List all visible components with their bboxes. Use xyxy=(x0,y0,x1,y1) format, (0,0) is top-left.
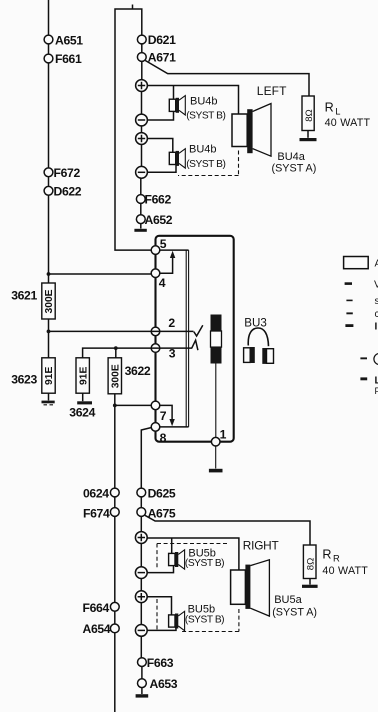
speaker RIGHT connector plate xyxy=(231,570,246,604)
svg-text:40 WATT: 40 WATT xyxy=(322,565,368,577)
node plus2 xyxy=(136,133,148,145)
svg-text:F661: F661 xyxy=(55,52,82,66)
svg-text:BU4b: BU4b xyxy=(189,144,217,156)
wire xyxy=(48,270,50,283)
legend circle fragment xyxy=(374,353,378,364)
node D624 xyxy=(110,488,119,497)
wire minusA to BU5b-1 xyxy=(147,566,173,573)
wire xyxy=(141,62,143,80)
svg-text:F672: F672 xyxy=(54,166,81,180)
node junction 3622 top xyxy=(114,346,118,350)
ground 3623 xyxy=(42,401,55,405)
wire tap BU4b-1 xyxy=(173,86,175,100)
svg-text:8Ω: 8Ω xyxy=(304,109,315,122)
node A671 xyxy=(137,53,146,62)
wire plus2 to BU4b-2 xyxy=(147,139,172,153)
svg-text:(SYST B): (SYST B) xyxy=(185,615,224,626)
headphone jack BU3 plug xyxy=(211,315,222,364)
wire xyxy=(140,203,142,214)
node A654 xyxy=(110,624,119,633)
wire 3622 down to D624 xyxy=(114,394,116,488)
svg-text:F664: F664 xyxy=(83,601,110,615)
svg-text:4: 4 xyxy=(159,276,166,290)
node minusA xyxy=(135,567,147,579)
wire xyxy=(140,178,142,194)
node A652 xyxy=(136,215,145,224)
svg-text:RIGHT: RIGHT xyxy=(243,538,279,552)
resistor RR xyxy=(303,545,316,579)
wire A675 to RR xyxy=(145,515,310,545)
wire plusA to speaker xyxy=(147,538,239,570)
wire top bracket xyxy=(115,9,151,250)
svg-text:F: F xyxy=(375,386,378,396)
wire plusB to BU5b-2 xyxy=(147,597,171,615)
svg-text:91E: 91E xyxy=(78,367,89,385)
svg-text:3622: 3622 xyxy=(125,364,151,378)
svg-text:L: L xyxy=(375,376,378,387)
wire minus1 to BU4b-1 xyxy=(147,111,173,120)
svg-text:RL: RL xyxy=(325,101,341,117)
svg-text:300E: 300E xyxy=(110,364,121,388)
wire inner rail left xyxy=(185,250,187,427)
node D625 xyxy=(137,488,146,497)
svg-text:A675: A675 xyxy=(148,507,176,521)
wire xyxy=(141,667,143,679)
node plus1 xyxy=(136,80,148,92)
svg-text:A671: A671 xyxy=(148,50,176,64)
node pin2 xyxy=(151,327,160,336)
ground RL xyxy=(300,138,317,141)
wire minusB to BU5b-2 xyxy=(147,627,176,630)
svg-text:3623: 3623 xyxy=(11,373,37,387)
svg-text:91E: 91E xyxy=(44,367,55,385)
svg-text:I: I xyxy=(375,322,378,333)
connector BU4b-1 xyxy=(169,96,185,115)
svg-text:3: 3 xyxy=(169,347,176,361)
wire pin1 to ground xyxy=(215,446,217,469)
connector BU4b-2 xyxy=(169,149,185,168)
svg-text:F663: F663 xyxy=(147,656,174,670)
wire xyxy=(141,144,143,166)
wire left bus top xyxy=(48,0,50,270)
svg-text:A654: A654 xyxy=(83,622,111,636)
resistor 3623 91E xyxy=(42,358,55,393)
svg-text:(SYST B): (SYST B) xyxy=(186,111,225,122)
node F672 xyxy=(44,168,53,177)
svg-text:D622: D622 xyxy=(54,185,82,199)
svg-text:8Ω: 8Ω xyxy=(306,558,317,571)
switch jack contact pin3 xyxy=(192,340,198,350)
svg-text:300E: 300E xyxy=(44,289,55,313)
node A675 xyxy=(137,508,146,517)
node F663 xyxy=(138,658,147,667)
svg-text:V: V xyxy=(374,280,378,291)
op-amp U1 amplifier block xyxy=(156,236,234,442)
resistor RL xyxy=(302,96,314,131)
wire xyxy=(141,44,143,53)
svg-text:8: 8 xyxy=(160,431,167,445)
wire xyxy=(141,91,143,114)
node pin7 xyxy=(151,401,160,410)
wire inner rail right xyxy=(188,250,190,427)
wire minus2 to BU4b-2 xyxy=(147,165,176,173)
wire tap BU5b-1 xyxy=(171,538,173,554)
svg-text:(SYST A): (SYST A) xyxy=(272,162,317,174)
ground RR xyxy=(302,585,318,588)
node F674 xyxy=(110,508,119,517)
node minusB xyxy=(135,625,147,637)
wire pin2 feed xyxy=(49,330,194,332)
wire dashed syst boundary right xyxy=(238,151,240,176)
wire plus1 to speaker xyxy=(147,86,238,115)
svg-text:F674: F674 xyxy=(83,507,110,521)
wire pin8 to D625 xyxy=(141,428,151,489)
node minus2 xyxy=(136,166,148,178)
node F661 xyxy=(44,54,53,63)
legend dashes xyxy=(345,282,368,380)
svg-text:BU4b: BU4b xyxy=(190,95,218,107)
svg-text:5: 5 xyxy=(160,237,167,251)
connector BU5a contacts xyxy=(245,565,250,609)
wire xyxy=(309,579,311,585)
svg-text:A651: A651 xyxy=(55,33,83,47)
wire xyxy=(140,516,142,531)
wire pin5 inner xyxy=(156,249,189,251)
wire xyxy=(307,131,309,138)
ground pin1 xyxy=(209,469,223,473)
wire xyxy=(140,636,142,657)
resistor 3624 91E xyxy=(76,358,89,393)
svg-text:(SYST B): (SYST B) xyxy=(185,558,224,569)
connector BU5b-1 xyxy=(169,550,185,569)
svg-text:D625: D625 xyxy=(148,487,176,501)
node plusA xyxy=(135,532,147,544)
node minus1 xyxy=(136,114,148,126)
svg-text:0624: 0624 xyxy=(83,487,109,501)
wire xyxy=(115,497,142,508)
wire pin3 feed xyxy=(83,348,192,358)
svg-text:1: 1 xyxy=(220,427,227,441)
speaker LEFT cone xyxy=(253,104,271,157)
wire dashed syst box bottom section xyxy=(157,544,239,632)
svg-text:A: A xyxy=(375,259,378,270)
legend symbol box xyxy=(344,257,369,269)
speaker RIGHT cone xyxy=(250,560,269,616)
svg-text:(SYST B): (SYST B) xyxy=(186,159,225,170)
wire xyxy=(141,688,143,694)
wire pin8 inner xyxy=(156,426,189,428)
node D621 xyxy=(137,35,146,44)
ground A652 xyxy=(134,229,146,232)
svg-text:3621: 3621 xyxy=(11,288,37,302)
svg-text:7: 7 xyxy=(160,409,167,423)
headphones BU3 icon xyxy=(244,328,274,364)
node pin4 xyxy=(151,269,160,278)
wire pin4 arrow up xyxy=(156,251,176,274)
svg-text:A653: A653 xyxy=(150,677,178,691)
svg-text:(SYST A): (SYST A) xyxy=(272,607,317,619)
connector BU4a contacts xyxy=(247,109,252,153)
wire xyxy=(82,393,84,401)
wire pin7 feed xyxy=(115,404,151,406)
node pin8 xyxy=(151,423,160,432)
wire xyxy=(48,393,50,400)
svg-text:BU5a: BU5a xyxy=(274,594,302,606)
wire pin4 feed xyxy=(49,273,152,275)
node D622 xyxy=(44,186,53,195)
wire xyxy=(141,126,143,133)
node F662 xyxy=(136,195,145,204)
wire pin7 arrow down xyxy=(156,405,175,426)
wire xyxy=(140,579,142,591)
wire dashed syst boundary bottom xyxy=(178,175,239,177)
svg-text:3624: 3624 xyxy=(69,406,95,420)
node plusB xyxy=(135,591,147,603)
node junction pin2 bus xyxy=(47,330,51,334)
node junction pin4 bus xyxy=(47,272,51,276)
svg-text:BU3: BU3 xyxy=(244,316,267,329)
wire 3622 top xyxy=(115,348,117,358)
svg-text:BU4a: BU4a xyxy=(277,151,305,163)
node pin1 xyxy=(211,437,220,446)
node A653 xyxy=(138,679,147,688)
wire jack to pin1 xyxy=(215,364,217,438)
svg-text:A652: A652 xyxy=(145,213,173,227)
ground 3624 xyxy=(77,401,92,404)
svg-text:s: s xyxy=(375,296,378,307)
wire xyxy=(48,319,50,358)
wire A671 to RL xyxy=(145,61,309,97)
svg-text:RR: RR xyxy=(322,548,340,564)
svg-text:c: c xyxy=(375,309,378,320)
resistor 3621 300E xyxy=(42,283,55,319)
wire xyxy=(140,603,142,625)
wire xyxy=(140,224,142,229)
svg-text:2: 2 xyxy=(168,316,175,330)
ground A653 xyxy=(136,694,149,697)
node F664 xyxy=(110,602,119,611)
wire stub xyxy=(132,5,134,9)
node pin3 xyxy=(151,344,160,353)
node pin5 xyxy=(151,246,160,255)
wire left bus bottom xyxy=(114,516,116,712)
wire xyxy=(140,543,142,566)
svg-text:D621: D621 xyxy=(148,33,176,47)
connector BU5b-2 xyxy=(169,611,185,630)
resistor 3622 300E xyxy=(108,358,121,394)
switch jack contact pin2 xyxy=(194,325,203,336)
speaker LEFT connector plate xyxy=(232,114,247,147)
svg-text:F662: F662 xyxy=(145,193,172,207)
svg-text:40 WATT: 40 WATT xyxy=(325,117,371,129)
svg-text:LEFT: LEFT xyxy=(257,84,287,98)
node A651 xyxy=(44,35,53,44)
node junction pin7 bus xyxy=(113,404,117,408)
